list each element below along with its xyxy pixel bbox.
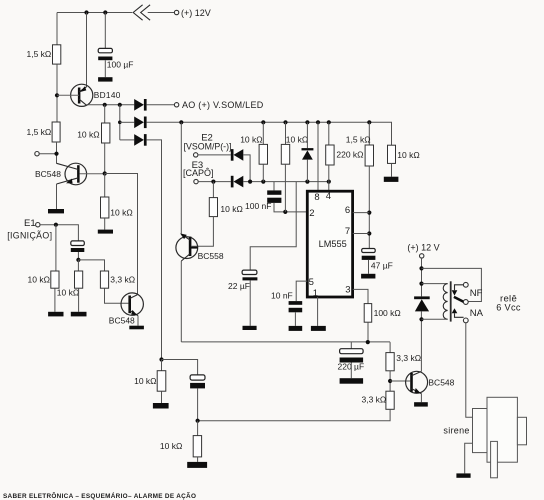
node bus/R 10k (a) [261, 120, 265, 124]
wire NA to siren [466, 323, 473, 418]
svg-text:3: 3 [345, 285, 350, 296]
wire 3,3k to BC548 base [105, 288, 129, 303]
resistor 10 kOhm (bus a) [259, 122, 267, 181]
ground (R mid) [71, 312, 87, 317]
wire base node down [104, 174, 106, 198]
resistor 220 kOhm [326, 122, 334, 181]
wire emitter to ground [137, 316, 139, 326]
node: bus junction to 100uF [103, 10, 107, 14]
node supply/COM loop [419, 266, 423, 270]
svg-text:7: 7 [345, 226, 350, 237]
wire +12V top bus [57, 12, 174, 14]
ground (BC548 #3) [414, 402, 428, 406]
ground (10k) [98, 230, 113, 234]
resistor 10 kOhm (bus b) [281, 122, 289, 212]
svg-text:SABER ELETRÔNICA – ESQUEMÁRIO: SABER ELETRÔNICA – ESQUEMÁRIO [3, 491, 128, 500]
capacitor (E1 debounce) [71, 241, 85, 252]
terminal input (unlabeled) [35, 152, 39, 156]
node: bus junction to BD140 emitter [84, 10, 88, 14]
battery chevron symbol (+) 12V feed [133, 5, 150, 20]
svg-text:sirene: sirene [443, 425, 469, 435]
wire 10k to base node [104, 143, 106, 174]
wire BD140 collector row [86, 104, 134, 106]
node base BC548 #3 [388, 379, 392, 383]
resistor 3,3 kOhm (upper) [386, 353, 394, 371]
svg-text:1,5 kΩ: 1,5 kΩ [27, 49, 52, 59]
terminal E3 [194, 179, 198, 183]
wire supply vertical [421, 258, 423, 296]
node bus/pin8 [316, 120, 320, 124]
svg-text:10 nF: 10 nF [271, 291, 293, 301]
resistor 10 kOhm (bottom) [193, 421, 201, 457]
wire tee to cap [162, 360, 198, 375]
node row/diode [305, 180, 309, 184]
node base junction [103, 171, 107, 175]
wire pin8 lead [317, 122, 319, 191]
transistor BC558 (PNP, mirrored) [176, 233, 198, 261]
terminal AO [174, 103, 178, 107]
resistor 10 kOhm (BD140 collector divider) [102, 123, 110, 143]
siren body [473, 397, 527, 478]
node bus/BC558 emitter [179, 120, 183, 124]
wire BC558 collector down [180, 261, 182, 342]
wire left drop to R 1.5k [56, 13, 58, 45]
wire base row to right column [105, 174, 138, 295]
wire coil bottom [422, 318, 448, 320]
capacitor 22uF [242, 270, 257, 280]
wire pin1 to ground [317, 297, 319, 326]
wire siren return to ground [465, 443, 473, 473]
wire pin4 lead [328, 182, 330, 192]
transistor BD140 (PNP) [57, 84, 93, 106]
transistor BC548 (third) [406, 371, 428, 393]
svg-text:100 µF: 100 µF [107, 60, 134, 70]
wire 47uF to ground [368, 260, 370, 274]
wire 10nF to ground [294, 312, 296, 326]
node row/220k pin4 [327, 180, 331, 184]
wire 100nF to pin2 [274, 203, 307, 212]
svg-text:1,5 kΩ: 1,5 kΩ [27, 127, 52, 137]
terminal (+) 12V [174, 10, 178, 14]
wire cap to node [77, 252, 79, 260]
node supply/coil bottom [419, 317, 423, 321]
ground (pin1) [311, 326, 326, 331]
svg-text:NA: NA [470, 308, 484, 319]
wire collector to relay [420, 311, 422, 371]
svg-text:3,3 kΩ: 3,3 kΩ [362, 394, 387, 404]
svg-text:[IGNIÇÃO]: [IGNIÇÃO] [7, 231, 52, 241]
ground (BC548 #2) [129, 326, 144, 330]
wire 100k to output row [367, 322, 369, 342]
node row1 to R10k [103, 103, 107, 107]
wire +12 loop to COM [422, 268, 482, 301]
wire 10k to ground [197, 457, 199, 462]
wire emitter to ground [420, 394, 422, 403]
svg-text:3,3 kΩ: 3,3 kΩ [110, 275, 135, 285]
ground (22uF) [243, 326, 257, 330]
ground (10k tee) [153, 403, 169, 409]
ground (47uF) [361, 274, 375, 279]
ground (100uF) [98, 77, 112, 81]
resistor 10 kOhm (E3 series) [209, 182, 217, 217]
svg-text:100 kΩ: 100 kΩ [374, 308, 401, 318]
svg-text:– ALARME DE AÇÃO: – ALARME DE AÇÃO [128, 491, 196, 500]
svg-text:[VSOM/P(-)]: [VSOM/P(-)] [184, 141, 232, 151]
ground (BC548 emitter) [48, 209, 64, 213]
svg-text:(+) 12V: (+) 12V [181, 8, 211, 18]
svg-text:5: 5 [309, 277, 314, 288]
node E1 junction [54, 223, 58, 227]
capacitor 47uF [362, 249, 376, 260]
diode D2 (feeds main bus) [120, 117, 147, 129]
node 100k/output row [366, 340, 370, 344]
contact NA [452, 308, 468, 323]
node bus/R 1,5k [367, 120, 371, 124]
wire output row y=342 [181, 342, 390, 353]
wire diode chain vertical [119, 105, 121, 140]
svg-text:22 µF: 22 µF [228, 281, 250, 291]
wire D3 to long vertical [147, 140, 162, 360]
wire E1 row [40, 225, 78, 241]
wire E2 to diode [198, 154, 231, 156]
relay armature + COM [454, 297, 468, 305]
terminal E1 [36, 223, 40, 227]
node diode chain/row2 [118, 121, 122, 125]
wire pin7 [353, 233, 370, 235]
svg-text:10 kΩ: 10 kΩ [57, 287, 79, 297]
wire 3,3k bottom to long row [198, 409, 391, 420]
diode D4 (E2 input) [231, 149, 244, 161]
transistor BC548 (second) [121, 293, 143, 316]
ground (10k bus end) [384, 177, 399, 182]
contact NF [452, 282, 468, 295]
wire node to 3,3k column [78, 260, 104, 271]
diode D5 (E3 input) [231, 176, 244, 188]
wire 100uF to ground [104, 60, 106, 77]
wire 10k to ground [104, 218, 106, 230]
wire input to collector column [39, 153, 56, 155]
resistor 10 kOhm (base pulldown) [101, 197, 109, 218]
svg-text:10 kΩ: 10 kΩ [240, 135, 262, 145]
relay coil [443, 284, 447, 320]
wire R 10k column from row1 [104, 105, 106, 123]
diode D7 (relay freewheel) [414, 296, 430, 311]
svg-text:3,3 kΩ: 3,3 kΩ [396, 353, 421, 363]
node bus/R 220k [327, 120, 331, 124]
wire 22uF branch from row [250, 182, 296, 271]
svg-text:8: 8 [314, 192, 319, 203]
node bus/R 10k (b) [283, 120, 287, 124]
node E3/R10k [211, 180, 215, 184]
svg-text:100 nF: 100 nF [245, 201, 271, 211]
wire coil top [422, 283, 448, 285]
svg-text:[CAPÔ]: [CAPÔ] [183, 168, 214, 178]
wire cap to bottom row [197, 388, 199, 420]
wire BD140 emitter vertical [86, 13, 88, 88]
ground (10k bottom) [187, 462, 207, 468]
wire R to BC548 collector [56, 142, 58, 164]
node BD140 base [55, 93, 59, 97]
svg-text:10 kΩ: 10 kΩ [28, 275, 50, 285]
svg-text:10 kΩ: 10 kΩ [134, 376, 156, 386]
svg-text:BC558: BC558 [198, 251, 224, 261]
wire base [390, 380, 410, 382]
node bus/diode [305, 120, 309, 124]
wire pin5 to 10nF [296, 281, 307, 301]
diode D3 (to lower latch) [120, 134, 147, 146]
capacitor (timing, bottom) [190, 375, 205, 389]
relay core [450, 281, 452, 321]
node cap/bottom row [196, 419, 200, 423]
ground (220uF) [340, 378, 364, 384]
resistor 3,3 kOhm (to BC548 base) [100, 271, 108, 288]
capacitor 100uF [98, 48, 112, 60]
wire pin3 to 100k [353, 289, 368, 303]
svg-text:BC548: BC548 [428, 377, 454, 387]
wire E3 to diode [198, 181, 231, 183]
svg-text:AO (+) V.SOM/LED: AO (+) V.SOM/LED [182, 100, 264, 110]
node cap bottom [76, 258, 80, 262]
svg-text:BC548: BC548 [109, 315, 135, 325]
svg-text:BC548: BC548 [35, 169, 61, 179]
ground (10nF) [289, 326, 303, 331]
wire 3,3k to base node [389, 371, 391, 391]
wire 220uF to ground [350, 363, 352, 379]
svg-text:(+) 12 V: (+) 12 V [407, 243, 439, 253]
wire 10k to BC558 base [192, 217, 214, 247]
svg-text:10 kΩ: 10 kΩ [286, 135, 308, 145]
wire E1 down to R [55, 225, 57, 271]
svg-text:47 µF: 47 µF [371, 260, 393, 270]
resistor 1,5 kOhm (lower left) [52, 122, 60, 142]
svg-text:6 Vcc: 6 Vcc [496, 303, 521, 313]
capacitor 10nF [289, 301, 303, 312]
svg-text:BD140: BD140 [94, 90, 121, 100]
svg-text:10 kΩ: 10 kΩ [110, 208, 132, 218]
node row1 to diode chain [118, 103, 122, 107]
node supply/coil top [419, 282, 423, 286]
terminal E2 [194, 153, 198, 157]
wire 100nF drop from row [273, 182, 275, 191]
diode D1 (to AO output) [134, 99, 146, 111]
node row/D4 [248, 180, 252, 184]
wire BC558 emitter up to bus [180, 122, 182, 234]
wire trigger row [243, 181, 328, 183]
svg-text:10 kΩ: 10 kΩ [77, 129, 99, 139]
wire to ground [78, 288, 80, 312]
wire to ground [54, 288, 56, 312]
resistor 10 kOhm (bus end) [388, 145, 396, 177]
resistor 3,3 kOhm (lower) [386, 391, 394, 409]
resistor 10 kOhm (E1 mid) [75, 271, 83, 288]
wire 10k to ground [161, 391, 163, 403]
svg-text:10 kΩ: 10 kΩ [220, 204, 242, 214]
node long vertical / bottom tee [159, 357, 163, 361]
svg-text:10 kΩ: 10 kΩ [397, 150, 419, 160]
svg-text:1,5 kΩ: 1,5 kΩ [346, 135, 371, 145]
wire pin6 [353, 212, 370, 214]
node input junction [54, 152, 58, 156]
terminal (+) 12 V relay [420, 254, 424, 258]
wire R1.5k to base node [56, 64, 58, 122]
wire 100uF drop [104, 13, 106, 49]
resistor 100 kOhm [364, 304, 372, 323]
resistor 10 kOhm (tee) [157, 360, 166, 392]
svg-text:2: 2 [309, 208, 314, 219]
wire 220uF tap [350, 342, 352, 349]
svg-text:LM555: LM555 [319, 239, 347, 249]
capacitor 100nF [267, 190, 281, 203]
svg-text:6: 6 [345, 205, 350, 216]
transistor BC548 (first, mirrored) [57, 163, 105, 185]
wire D1 to AO terminal [147, 104, 175, 106]
svg-text:4: 4 [326, 191, 331, 202]
resistor 1,5 kOhm (top left) [53, 45, 61, 64]
svg-text:10 kΩ: 10 kΩ [160, 441, 182, 451]
ground (siren) [456, 473, 470, 477]
capacitor 220uF [340, 349, 364, 363]
node pin2/R10k [283, 210, 287, 214]
node pin6 [367, 211, 371, 215]
svg-text:NF: NF [470, 288, 483, 299]
wire D4 to trigger row [243, 155, 250, 182]
wire main bus y=122 [147, 122, 392, 145]
resistor 10 kOhm (E1 left) [51, 271, 59, 288]
svg-text:220 kΩ: 220 kΩ [336, 150, 363, 160]
diode D6 (row to bus) [302, 122, 314, 181]
node row/R10k a [261, 180, 265, 184]
IC LM555 box [307, 191, 352, 297]
ground (R left) [48, 312, 63, 317]
wire 22uF to ground [249, 280, 251, 325]
node pin7 [367, 231, 371, 235]
resistor 1,5 kOhm (pin7 feed) [365, 122, 373, 248]
svg-text:E1: E1 [24, 218, 36, 229]
wire emitter to ground [56, 184, 58, 209]
